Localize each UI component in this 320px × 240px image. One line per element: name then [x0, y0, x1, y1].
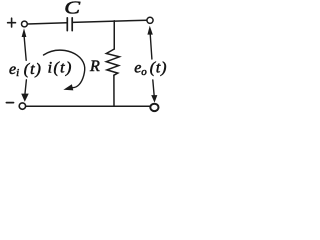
- plus sign (+) input polarity: [8, 18, 16, 27]
- voltage arrow e_o up (toward top output terminal): [148, 27, 152, 59]
- svg-text:ei(t): ei(t): [9, 61, 42, 79]
- terminal top-left (input +): [22, 21, 28, 27]
- label R: [89, 58, 100, 75]
- current loop arrow i(t) clockwise: [44, 50, 85, 90]
- resistor R zigzag: [106, 49, 119, 75]
- svg-text:i(t): i(t): [48, 60, 73, 77]
- voltage arrow e_i up (toward + terminal): [22, 30, 26, 60]
- label C: [64, 0, 81, 18]
- wire top-right segment: [73, 20, 147, 22]
- terminal bottom-right (output): [150, 104, 158, 111]
- wire resistor bottom lead: [113, 75, 115, 106]
- svg-text:C: C: [64, 0, 81, 18]
- svg-text:R: R: [89, 58, 100, 75]
- minus sign (-) input polarity: [6, 102, 13, 104]
- capacitor C plates: [67, 18, 72, 31]
- voltage arrow e_i down (toward - terminal): [22, 80, 28, 101]
- terminal bottom-left (input -): [19, 103, 25, 109]
- label e_i(t): [9, 61, 42, 79]
- label e_o(t): [134, 60, 167, 78]
- wire bottom segment: [26, 105, 151, 107]
- voltage arrow e_o down (toward bottom output terminal): [152, 80, 157, 102]
- svg-text:eo(t): eo(t): [134, 60, 167, 78]
- label i(t): [48, 60, 73, 77]
- node junction above resistor R: [113, 21, 115, 49]
- wire top-left segment: [28, 23, 67, 24]
- terminal top-right (output): [147, 17, 153, 23]
